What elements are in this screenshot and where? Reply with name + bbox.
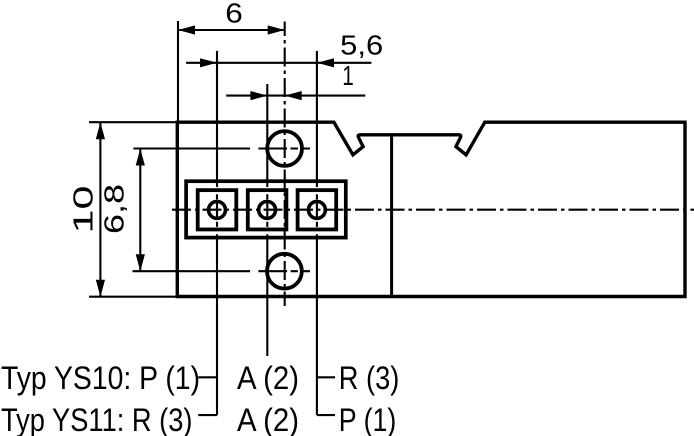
extension line left edge (dim 6) <box>177 21 179 122</box>
extension/label line port P <box>216 51 218 183</box>
main horizontal centerline <box>172 209 694 211</box>
svg-text:6,8: 6,8 <box>99 184 130 234</box>
svg-text:Typ YS11: R (3): Typ YS11: R (3) <box>1 402 193 436</box>
dimension line 6,8 <box>139 149 141 272</box>
extension line 10 bottom <box>89 296 177 298</box>
top hole horizontal crosshair <box>258 147 310 149</box>
bottom hole horizontal crosshair <box>258 270 310 272</box>
top mounting hole <box>267 131 302 166</box>
port P hole <box>209 201 226 218</box>
vertical centerline of mounting holes (extension of dim 6 and 1) <box>284 22 286 307</box>
port A square <box>248 190 287 229</box>
port A hole <box>259 201 276 218</box>
label tick R row1 <box>317 376 335 378</box>
port block outer rectangle <box>186 181 346 237</box>
dimension line 5,6 <box>186 62 371 64</box>
port R square <box>298 190 337 229</box>
label tick R row2 <box>317 414 335 416</box>
port R hole <box>308 201 325 218</box>
extension line 6,8 top <box>133 147 250 149</box>
extension line 10 top <box>89 121 177 123</box>
svg-text:A (2): A (2) <box>237 360 299 396</box>
label tick P row2 <box>198 414 217 416</box>
svg-text:P (1): P (1) <box>339 402 397 436</box>
svg-text:5,6: 5,6 <box>340 29 383 60</box>
svg-text:A (2): A (2) <box>237 402 299 436</box>
bottom mounting hole <box>267 254 302 289</box>
dimension line 10 <box>99 122 101 297</box>
dimension line 1 <box>226 95 365 97</box>
svg-text:R (3): R (3) <box>339 360 400 396</box>
extension/label line port R <box>316 51 318 183</box>
extension/label line port A <box>266 84 268 183</box>
svg-text:6: 6 <box>225 0 243 29</box>
svg-text:10: 10 <box>68 186 99 234</box>
label tick P row1 <box>198 376 217 378</box>
body outline with top mounting slot <box>177 122 685 296</box>
extension line 6,8 bottom <box>133 270 251 272</box>
port P square <box>198 190 237 229</box>
svg-text:Typ YS10: P (1): Typ YS10: P (1) <box>1 360 200 396</box>
svg-text:1: 1 <box>342 60 354 91</box>
divider line <box>390 135 393 297</box>
dimension line 6 <box>178 29 285 31</box>
